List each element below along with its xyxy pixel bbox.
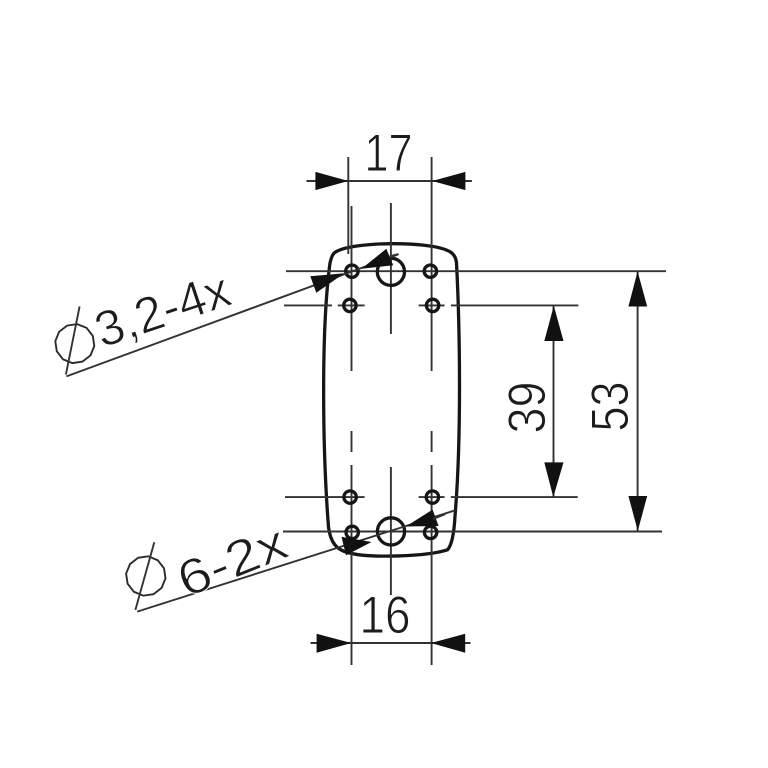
hole D2 large bbox=[377, 518, 404, 545]
leader line top bbox=[66, 255, 398, 377]
svg-text:53: 53 bbox=[581, 382, 640, 432]
hole A3 small bbox=[424, 265, 436, 277]
dimension 53 line bbox=[637, 271, 639, 531]
leader bottom tick bbox=[433, 514, 445, 519]
svg-text:17: 17 bbox=[365, 124, 413, 183]
leader line bottom bbox=[137, 510, 455, 611]
hole C1 small bbox=[344, 491, 356, 503]
hole A2 large bbox=[377, 258, 404, 285]
dimension 17 line bbox=[307, 180, 472, 182]
svg-text:39: 39 bbox=[498, 382, 557, 434]
dimension 17 arrow right bbox=[432, 172, 465, 190]
dimension 39 arrow bottom bbox=[544, 462, 563, 497]
dimension 53 arrow top bbox=[628, 271, 647, 306]
leader top arrow 1 bbox=[310, 273, 344, 292]
svg-text:16: 16 bbox=[360, 586, 411, 645]
diameter slash bottom bbox=[135, 542, 154, 610]
diameter slash top bbox=[66, 306, 80, 374]
centerline row D bbox=[283, 531, 662, 533]
hole A1 small bbox=[346, 265, 358, 277]
leader bottom arrow SW bbox=[342, 537, 372, 555]
hole B1 small bbox=[344, 299, 356, 311]
dimension 16 arrow right bbox=[431, 634, 465, 653]
dimension 39 arrow top bbox=[544, 306, 563, 341]
dimension 39 line bbox=[553, 306, 555, 497]
leader top tick bbox=[390, 254, 399, 256]
leader top arrow 2 bbox=[362, 249, 394, 269]
centerline row B bbox=[284, 304, 332, 306]
centerline row C bbox=[285, 496, 365, 498]
dimension 16 arrow left bbox=[317, 634, 352, 653]
extension line 17 left bbox=[347, 157, 349, 254]
centerline row A bbox=[286, 270, 666, 272]
hole D1 small bbox=[346, 526, 358, 538]
dimension 16 line bbox=[311, 642, 471, 644]
dimension 53 arrow bottom bbox=[628, 496, 647, 531]
leader bottom arrow NE bbox=[406, 510, 439, 527]
diameter symbol bottom bbox=[126, 556, 165, 595]
hole C2 small bbox=[426, 491, 438, 503]
column centerline middle bbox=[390, 203, 392, 334]
diameter symbol top bbox=[55, 324, 94, 363]
column centerline right bbox=[431, 157, 433, 371]
column centerline left bbox=[351, 206, 353, 371]
plate outline bbox=[324, 244, 460, 556]
hole D3 small bbox=[424, 526, 436, 538]
dimension 17 arrow left bbox=[315, 172, 348, 190]
hole B2 small bbox=[426, 299, 438, 311]
